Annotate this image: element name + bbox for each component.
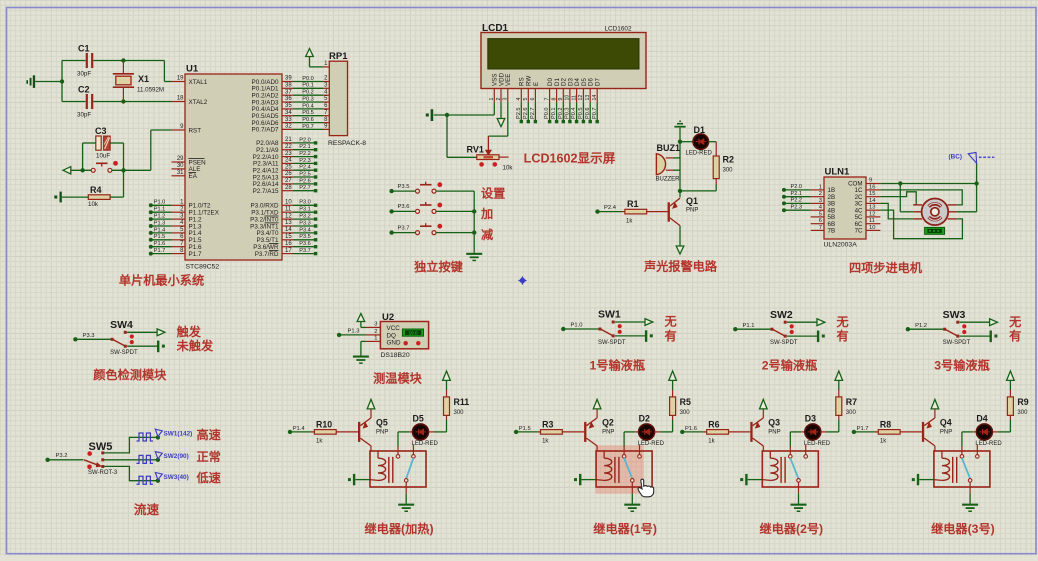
svg-text:300: 300 [680,410,691,416]
arrow terminal (reset) [63,167,71,174]
node P3.3 terminal [314,224,317,227]
svg-text:P0.3: P0.3 [302,96,314,102]
node RV1 branch junction [445,113,449,117]
wire net P0.5 (LCD) [582,102,584,121]
node crystal top junction [121,58,125,62]
wire net P1.3 [151,225,172,227]
svg-text:SW1(142): SW1(142) [164,431,193,438]
wire 4C to motor [880,210,962,239]
U1 pin P3.1 [282,211,293,213]
svg-text:5: 5 [523,98,529,101]
svg-text:13: 13 [585,95,591,101]
relay coil+contact box [762,451,818,487]
U1 pin EA 31 [172,175,186,177]
wire SW5 throw2 (normal) [104,459,158,461]
node P0.1 terminal [555,120,558,123]
svg-text:Q3: Q3 [768,418,780,428]
wire net P0.0 to RP1 [293,81,323,83]
svg-text:27: 27 [285,178,292,184]
node throw2 terminal [156,458,160,462]
svg-text:2: 2 [496,98,502,101]
svg-text:17: 17 [285,248,292,254]
wire net P0.0 (LCD) [549,102,551,121]
svg-text:P0.1: P0.1 [551,107,557,119]
U1 pin P3.2 [282,218,293,220]
wire net P0.3 (LCD) [569,102,571,121]
svg-text:300: 300 [723,168,734,174]
push button P3.5 [392,190,416,192]
svg-text:P3.7: P3.7 [398,225,410,231]
node P2.7 terminal [534,120,537,123]
svg-text:触发: 触发 [176,324,202,339]
svg-text:DS18B20: DS18B20 [381,352,410,359]
node COM junction right [974,181,978,185]
wire net P2.4 [293,169,315,171]
svg-text:无: 无 [836,315,849,329]
wire net P0.6 (LCD) [589,102,591,121]
wire power to RP1 pin1 [309,57,311,67]
power terminal at LCD VDD (down arrow) [500,102,502,118]
svg-text:P0.0: P0.0 [302,76,314,82]
wire Q3 emitter to relay coil [762,446,764,451]
node P1.6 terminal [149,245,153,249]
svg-text:EA: EA [189,173,198,180]
wire P1.4 to R10 [290,431,311,433]
svg-text:P1.2: P1.2 [154,214,166,220]
wire SW2 throw-2 to bar terminal [787,335,817,337]
svg-text:Q5: Q5 [376,418,388,428]
svg-text:(BC): (BC) [949,154,963,161]
wire SW1 throw-1 to arrow terminal [615,321,645,323]
node P2.5 terminal [520,120,523,123]
svg-text:SW-SPDT: SW-SPDT [943,340,971,346]
U1 pin P3.0 [282,204,293,206]
transistor Q3 PNP [750,422,752,442]
svg-text:XTAL2: XTAL2 [189,99,208,106]
wire net P2.3 [293,162,315,164]
svg-text:PNP: PNP [768,429,780,435]
U1 pin P0.5/AD5 [282,115,293,117]
resistor R10 1k [311,431,314,433]
U1 pin P0.2/AD2 [282,94,293,96]
svg-text:15: 15 [285,234,292,240]
svg-text:14: 14 [592,95,598,101]
svg-text:VEE: VEE [505,74,512,86]
svg-text:10: 10 [285,200,292,206]
svg-text:P0.2: P0.2 [558,107,564,119]
ULN1 pin 4B [811,209,824,211]
wire P3.2 to SW5 [48,459,84,461]
relay moving contact (cyan) [790,458,798,478]
node P0.3 terminal [568,120,571,123]
svg-text:5: 5 [819,211,822,217]
ground bar at relay coil [917,474,919,485]
svg-text:12: 12 [869,211,875,217]
svg-text:23: 23 [285,151,292,157]
node P3.1 terminal [314,211,317,214]
wire SW3 throw-2 to bar terminal [960,335,990,337]
svg-text:1: 1 [819,184,822,190]
wire net P0.4 to RP1 [293,108,323,110]
wire relay common to ground [969,482,971,493]
power +5V arrow above R7 [838,380,840,390]
wire net P1.5 [151,239,172,241]
node P1.1 terminal [149,210,153,214]
ground bar at relay coil [353,474,355,485]
ground below relay [624,504,640,506]
U1 pin P0.4/AD4 [282,108,293,110]
svg-text:VCC: VCC [387,325,401,332]
generator SW2(90) pulse [137,455,154,463]
node P1.0 terminal [561,327,565,331]
svg-text:D2: D2 [639,414,650,424]
svg-text:P2.6: P2.6 [523,107,529,119]
wire alarm bus [679,128,681,198]
wire DQ [339,334,366,336]
U1 pin P2.2/A10 [282,156,293,158]
wire net P1.4 [151,232,172,234]
svg-text:P2.7: P2.7 [299,185,311,191]
node P1.2 terminal [906,327,910,331]
wire P1.2 to switch SW3 [908,328,943,330]
svg-text:1k: 1k [626,219,633,225]
relay moving contact (cyan) [624,458,632,478]
resistor R1 1k [598,211,622,213]
svg-text:未触发: 未触发 [176,338,214,353]
U1 pin P1.1 [172,211,186,213]
wire Q5 emitter to relay coil [370,446,372,451]
svg-text:P1.5: P1.5 [519,426,531,432]
svg-text:无: 无 [664,315,677,329]
stepper speed display [925,227,945,234]
wire P3.5 key to bus [436,190,474,192]
wire net P2.1 [293,149,315,151]
wire net P1.1 [151,211,172,213]
wire net P0.4 (LCD) [576,102,578,121]
LED D5 LED-RED [409,431,413,433]
svg-text:31: 31 [177,170,184,176]
origin marker [518,276,526,284]
svg-text:PNP: PNP [602,429,614,435]
wire COM to motor right tap [976,184,978,212]
svg-text:P2.5: P2.5 [299,171,311,177]
resistor R2 300 [713,156,719,179]
wire SW5 throw3 (low) [104,466,158,480]
wire net P1.7 [151,253,172,255]
RP1 pin 3 [323,87,329,89]
node P1.1 terminal [733,327,737,331]
wire net P0.2 (LCD) [562,102,564,121]
svg-text:P3.5: P3.5 [299,234,311,240]
node P1.4 terminal [149,231,153,235]
svg-text:DQ: DQ [387,333,397,340]
svg-text:SW4: SW4 [110,319,133,331]
svg-text:4: 4 [516,98,522,101]
svg-text:9: 9 [869,178,872,184]
node P1.3 terminal [337,333,341,337]
svg-text:P2.7: P2.7 [530,107,536,119]
ULN1 pin 3B [811,202,824,204]
node bus junction 2 [472,230,476,234]
node P2.1 terminal (ULN) [782,195,786,199]
svg-text:LED-RED: LED-RED [412,441,439,447]
transistor Q2 PNP [584,422,586,442]
wire Q4 emitter to relay coil [934,446,936,451]
wire net P0.7 (LCD) [596,102,598,121]
wire net P0.2 to RP1 [293,94,323,96]
svg-text:P1.4: P1.4 [154,227,166,233]
svg-text:P1.0: P1.0 [571,323,583,329]
U2 temperature display [402,329,423,336]
svg-text:30pF: 30pF [77,71,91,78]
node P3.2 terminal [45,458,49,462]
ULN1 pin 7B [811,229,824,231]
relay contacts [961,447,963,455]
wire net P2.6 (LCD) [527,102,529,121]
svg-text:38: 38 [285,83,292,89]
svg-text:28: 28 [285,185,292,191]
node reset junction left [80,168,84,172]
svg-text:无: 无 [1008,315,1021,329]
U1 pin P1.5 [172,239,186,241]
svg-text:流速: 流速 [134,502,160,517]
svg-text:11.0592M: 11.0592M [137,87,164,94]
switch SW2 SW-SPDT [771,328,774,331]
wire net P2.5 (LCD) [520,102,522,121]
resistor R11 300 [444,397,450,416]
svg-text:P0.7/AD7: P0.7/AD7 [252,127,279,134]
svg-text:有: 有 [1009,328,1021,343]
svg-text:P3.2: P3.2 [56,453,68,459]
RP1 pin 2 [323,81,329,83]
node crystal bottom junction [121,99,125,103]
wire SW3 throw-1 to arrow terminal [960,321,990,323]
wire D4 to R9 [998,431,1011,433]
RP1 pin 9 [323,128,329,130]
svg-text:正常: 正常 [197,449,221,464]
power terminal below Q1 (down arrow) [676,246,684,254]
svg-text:P3.6: P3.6 [299,241,311,247]
svg-text:3: 3 [819,198,822,204]
svg-text:D0: D0 [547,78,554,86]
power +5V arrow above R5 [672,380,674,390]
svg-text:P1.2: P1.2 [915,323,927,329]
svg-text:11: 11 [571,95,577,100]
svg-text:36: 36 [285,96,292,102]
wire relay common to ground [405,482,407,493]
svg-text:7B: 7B [828,228,836,235]
svg-text:单片机最小系统: 单片机最小系统 [119,273,204,288]
switch SW4 SW-SPDT [111,338,114,341]
LED D1 LED-RED [680,141,693,143]
capacitor C1 30pF [62,60,86,62]
svg-text:P3.7/RD: P3.7/RD [255,251,279,258]
node P2.4 terminal [314,169,317,172]
ground (crystal net) [33,75,35,88]
relay coil+contact box [934,451,990,487]
wire D2 to R5 [660,431,673,433]
node P2.2 terminal [314,155,317,158]
node P3.7 terminal [314,252,317,255]
node P2.3 terminal (ULN) [782,208,786,212]
svg-text:18: 18 [177,96,184,102]
svg-text:PNP: PNP [376,429,388,435]
svg-text:9: 9 [558,98,564,101]
wire relay contact to D5 [397,432,399,447]
wire net P3.5 [293,239,315,241]
svg-text:19: 19 [177,76,184,82]
U1 pin P3.4 [282,232,293,234]
wire net P0.5 to RP1 [293,115,323,117]
node P1.3 terminal [149,224,153,228]
svg-text:P2.0: P2.0 [299,137,311,143]
relay contacts [397,447,399,455]
svg-text:SW2: SW2 [770,309,793,321]
ground bar at relay coil [579,474,581,485]
LED D4 LED-RED [973,431,977,433]
svg-text:P1.3: P1.3 [154,220,166,226]
resistor R3 1k [537,431,540,433]
svg-text:P1.7: P1.7 [189,251,202,258]
wire P1.6 to R6 [682,431,703,433]
svg-text:12: 12 [285,213,292,219]
svg-text:16: 16 [869,184,875,190]
wire net P0.7 to RP1 [293,128,323,130]
ULN1 pin 2B [811,196,824,198]
ULN1 pin 1B [811,189,824,191]
U1 pin P1.4 [172,232,186,234]
node P1.4 terminal [288,430,292,434]
svg-text:X1: X1 [138,74,149,84]
node P1.7 terminal [149,252,153,256]
svg-text:25: 25 [285,164,292,170]
wire net P3.1 [293,211,315,213]
ULN1 pin 6C [866,223,880,225]
U1 pin P0.1/AD1 [282,87,293,89]
wire net P3.4 [293,232,315,234]
svg-text:P0.0: P0.0 [544,107,550,119]
wire R4 to RST net [110,196,123,198]
svg-text:LED-RED: LED-RED [638,441,665,447]
push button P3.6 [392,210,416,212]
svg-text:10k: 10k [88,201,99,208]
ground at LCD VSS [431,109,434,121]
svg-text:29: 29 [177,156,184,162]
svg-text:1k: 1k [880,438,887,444]
svg-text:四项步进电机: 四项步进电机 [849,260,923,275]
wire net P2.5 [293,176,315,178]
node P0.6 terminal [589,120,592,123]
node P0.7 terminal [596,120,599,123]
wire VCC [360,322,362,328]
node P2.6 terminal [527,120,530,123]
svg-text:R3: R3 [542,420,553,430]
svg-text:P2.2: P2.2 [791,198,803,204]
node D1 junction [678,140,682,144]
relay contacts [789,447,791,455]
wire net P2.2 [293,156,315,158]
node P3.6 terminal [314,245,317,248]
wire net P1.6 [151,246,172,248]
node P2.3 terminal [314,162,317,165]
stepper motor pins [913,204,922,206]
wire junction down to RV1 [446,115,448,157]
svg-text:300: 300 [1017,410,1028,416]
svg-text:P1.7: P1.7 [857,426,869,432]
svg-text:16: 16 [285,241,292,247]
ground above buzzer (inverted) [674,126,685,128]
node P2.7 terminal [314,189,317,192]
node P3.3 terminal [73,337,77,341]
wire net P3.3 [293,225,315,227]
switch SW3 SW-SPDT [943,328,946,331]
wire SW2 throw-1 to arrow terminal [787,321,817,323]
U1 pin P2.0/A8 [282,142,293,144]
node P0.5 terminal [582,120,585,123]
power +5V arrow above Q5 [367,399,375,409]
svg-text:P0.7: P0.7 [592,107,598,119]
svg-text:R10: R10 [316,420,332,430]
svg-text:14: 14 [869,198,876,204]
node P3.6 terminal [389,209,393,213]
svg-text:LCD1602显示屏: LCD1602显示屏 [524,152,616,166]
wire P2.0 to ULN [784,189,811,191]
U1 pin P2.1/A9 [282,149,293,151]
node P3.2 terminal [314,217,317,220]
svg-text:P1.6: P1.6 [685,426,697,432]
node COM junction left [898,181,902,185]
svg-text:R8: R8 [880,420,891,430]
svg-text:XTAL1: XTAL1 [189,79,208,86]
relay contacts [623,447,625,455]
wire 3C to motor [880,203,913,219]
svg-text:7: 7 [544,98,550,101]
U1 pin P0.3/AD3 [282,101,293,103]
ground bar at relay coil [745,474,747,485]
svg-text:22: 22 [285,144,292,150]
wire C3 right [110,142,123,144]
svg-text:P2.7/A15: P2.7/A15 [253,188,279,195]
node throw3 terminal [156,479,160,483]
svg-text:RW: RW [526,76,533,86]
svg-text:1k: 1k [316,438,323,444]
ground below relay [962,504,978,506]
svg-text:LED-RED: LED-RED [804,441,831,447]
U1 pin P2.3/A11 [282,162,293,164]
svg-text:P0.6: P0.6 [302,117,314,123]
node P3.4 terminal [314,231,317,234]
svg-text:继电器(加热): 继电器(加热) [364,521,433,536]
U1 pin P1.6 [172,246,186,248]
node P0.4 terminal [575,120,578,123]
RP1 pin 7 [323,115,329,117]
svg-text:低速: 低速 [196,470,222,485]
svg-text:10: 10 [869,225,875,231]
svg-text:1k: 1k [708,438,715,444]
RP1 pin 6 [323,108,329,110]
U1 pin P2.7/A15 [282,190,293,192]
svg-text:ULN1: ULN1 [825,167,851,178]
svg-text:P3.2: P3.2 [299,214,311,220]
svg-text:D5: D5 [413,414,424,424]
svg-text:P3.3: P3.3 [299,220,311,226]
node P0.2 terminal [562,120,565,123]
svg-text:RESPACK-8: RESPACK-8 [328,140,366,147]
transistor Q1 PNP [668,202,670,221]
svg-text:RS: RS [519,77,526,86]
svg-text:2: 2 [374,329,377,335]
svg-text:11: 11 [285,206,292,212]
